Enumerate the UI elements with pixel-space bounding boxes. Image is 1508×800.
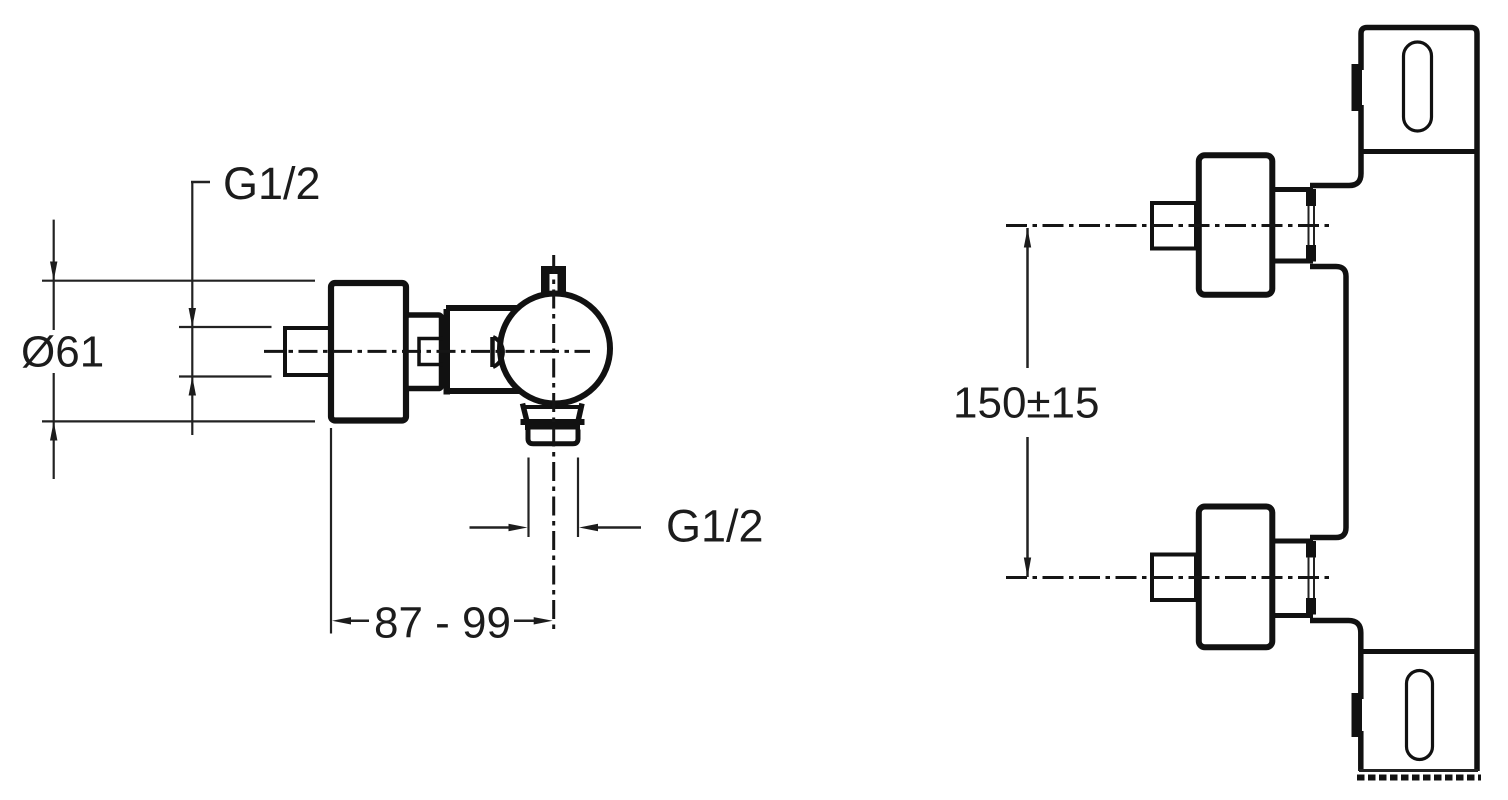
upper union nut	[1199, 155, 1273, 295]
bottom plate bottom solid line	[1359, 769, 1478, 772]
extension line below outlet right	[577, 458, 579, 538]
lower union cylinder bottom edge	[1272, 613, 1313, 618]
pipe top extension line	[179, 326, 272, 328]
top plate left tab	[1352, 64, 1363, 111]
G1/2 top down arrowhead	[189, 308, 196, 327]
150±15 down arrowhead	[1024, 558, 1031, 578]
upper union pipe stub	[1152, 203, 1196, 249]
87-99 extension line from escutcheon	[330, 428, 332, 634]
handle stem right post	[558, 266, 567, 294]
150±15 dimension line lower segment	[1026, 437, 1029, 577]
G1/2 bottom dimension right line	[596, 526, 641, 529]
pipe bottom extension line	[179, 375, 272, 377]
svg-text:87 - 99: 87 - 99	[374, 599, 511, 648]
G1/2 top leader tick	[191, 181, 210, 184]
upper flange thin line right	[1313, 206, 1315, 245]
lower flange thin line right	[1313, 557, 1315, 598]
svg-text:150±15: 150±15	[953, 379, 1100, 428]
pipe elbow lower-to-bottom-plate and plate left edge	[1310, 621, 1361, 772]
wall escutcheon Ø61 (side view)	[331, 283, 406, 421]
G1/2 bottom dimension left line	[470, 526, 512, 529]
dimension Ø61 top extension line	[42, 280, 315, 282]
horizontal centerline (side view)	[264, 350, 590, 353]
87-99 dimension line right segment	[514, 620, 535, 623]
flange bar between nut and valve body	[444, 309, 451, 395]
outlet top edge	[524, 405, 581, 409]
cartridge lens detail arc	[493, 337, 503, 367]
lower centerline (front view)	[1006, 576, 1332, 579]
thermostatic valve circular body (front face)	[500, 294, 610, 404]
dimension Ø61 vertical dimension line lower segment	[53, 373, 55, 479]
G1/2 bottom left arrowhead (points left)	[579, 524, 598, 531]
outlet top trapezoid right side	[578, 404, 582, 422]
dimension Ø61 up arrowhead	[50, 421, 57, 440]
lower flange bottom block	[1306, 598, 1316, 615]
vertical pipe between unions with elbows	[1310, 267, 1346, 538]
supply pipe nipple (side view)	[285, 328, 331, 375]
outlet nut top line	[525, 425, 580, 430]
150±15 dimension line upper segment	[1026, 228, 1029, 368]
bottom plate left tab	[1352, 693, 1363, 737]
G1/2 top leader vertical line	[191, 182, 193, 435]
bottom plate top line	[1361, 649, 1477, 654]
upper union cylinder top edge	[1272, 187, 1313, 192]
upper flange top block	[1306, 189, 1316, 206]
top plate bottom line	[1361, 149, 1477, 154]
outlet top trapezoid left side	[523, 404, 528, 422]
pipe elbow upper-to-plate, plate top edge and right bar edge	[1310, 28, 1477, 772]
cartridge lens detail vertical line	[490, 337, 495, 367]
bottom plate oval slot	[1407, 671, 1433, 760]
upper centerline (front view)	[1006, 224, 1332, 227]
svg-text:Ø61: Ø61	[21, 327, 104, 376]
extension line below outlet left	[527, 458, 529, 538]
lower union cylinder top edge	[1272, 539, 1313, 544]
87-99 right arrowhead	[534, 617, 553, 624]
dimension Ø61 vertical dimension line upper segment	[53, 220, 55, 330]
upper union cylinder bottom edge	[1272, 259, 1313, 264]
lower union nut	[1199, 507, 1273, 648]
valve body top edge	[446, 305, 517, 311]
vertical centerline (side view)	[552, 255, 555, 632]
G1/2 bottom right arrowhead (points right)	[509, 524, 528, 531]
top plate oval slot	[1404, 42, 1432, 131]
handle stem top bar	[541, 266, 566, 274]
top plate tab white slit	[1362, 70, 1367, 105]
upper flange bottom block	[1306, 245, 1316, 262]
bottom plate dashed edge line	[1357, 775, 1481, 781]
outlet shoulder line	[521, 419, 585, 425]
upper flange thin line left	[1308, 206, 1310, 245]
outlet nut with rounded bottom	[528, 430, 578, 444]
handle stem left post	[541, 266, 550, 294]
bottom plate tab white slit	[1362, 699, 1367, 731]
valve body bottom edge	[446, 388, 519, 394]
dimension Ø61 down arrowhead	[50, 262, 57, 281]
lower flange thin line left	[1308, 557, 1310, 598]
G1/2 top up arrowhead	[189, 377, 196, 396]
87-99 dimension line left segment	[349, 620, 369, 623]
87-99 left arrowhead	[332, 617, 351, 624]
connection nut (side view)	[406, 315, 442, 389]
lower union pipe stub	[1152, 555, 1196, 601]
150±15 up arrowhead	[1024, 229, 1031, 248]
inner screw detail in nut	[419, 339, 443, 365]
svg-text:G1/2: G1/2	[223, 158, 321, 209]
lower flange top block	[1306, 541, 1316, 558]
svg-text:G1/2: G1/2	[666, 501, 764, 552]
dimension Ø61 bottom extension line	[42, 420, 315, 422]
